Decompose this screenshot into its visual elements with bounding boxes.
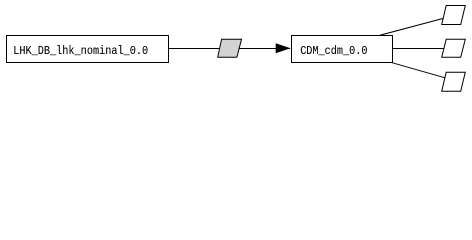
svg-text:LHK_DB_lhk_nominal_0.0: LHK_DB_lhk_nominal_0.0: [13, 44, 148, 58]
svg-text:CDM_cdm_0.0: CDM_cdm_0.0: [300, 44, 367, 58]
